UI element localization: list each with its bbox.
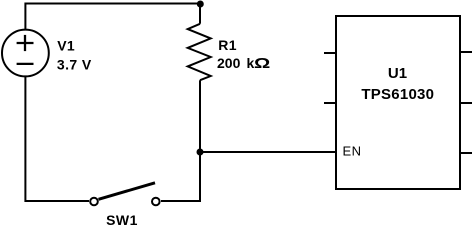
- svg-text:U1: U1: [388, 65, 407, 82]
- svg-text:SW1: SW1: [106, 212, 138, 225]
- svg-text:TPS61030: TPS61030: [361, 86, 434, 103]
- svg-text:EN: EN: [343, 143, 362, 158]
- svg-text:200 k: 200 k: [217, 55, 255, 71]
- svg-text:Ω: Ω: [254, 55, 270, 72]
- svg-text:3.7 V: 3.7 V: [57, 57, 92, 73]
- svg-text:R1: R1: [218, 37, 237, 53]
- svg-text:V1: V1: [57, 38, 75, 54]
